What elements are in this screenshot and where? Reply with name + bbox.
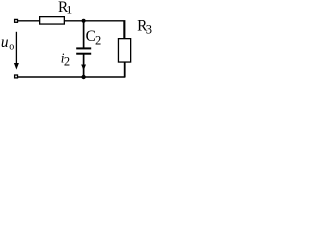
wire: R3 bottom down to bottom rail xyxy=(124,62,126,77)
svg-text:2: 2 xyxy=(95,34,101,48)
wire bottom rail xyxy=(18,76,125,78)
resistor R3 (box, vertical) xyxy=(118,39,130,62)
wire: junction down to C2 top plate xyxy=(83,21,85,48)
svg-text:1: 1 xyxy=(66,3,72,17)
capacitor C2 (two plates) xyxy=(76,47,91,49)
voltage arrow u_o (vertical, arrowhead down) xyxy=(15,32,17,64)
terminal (bottom-left, open square) xyxy=(15,75,18,78)
current arrow i2 (arrowhead on wire, pointing down) xyxy=(81,65,86,71)
svg-text:3: 3 xyxy=(146,23,152,37)
terminal (top-left, open square) xyxy=(15,19,18,22)
svg-text:u: u xyxy=(1,34,9,51)
wire top: terminal to R1 xyxy=(18,20,40,22)
wire top: R1 to top-right corner, down to R3 xyxy=(64,20,124,38)
resistor R1 (box) xyxy=(40,17,65,24)
node junction dot (top, C2 branch) xyxy=(82,19,86,23)
node junction dot (bottom, C2 branch) xyxy=(81,75,85,79)
svg-text:o: o xyxy=(9,42,14,53)
wire: C2 bottom plate down to bottom rail xyxy=(83,54,85,77)
svg-text:2: 2 xyxy=(64,55,70,69)
background xyxy=(0,0,154,85)
